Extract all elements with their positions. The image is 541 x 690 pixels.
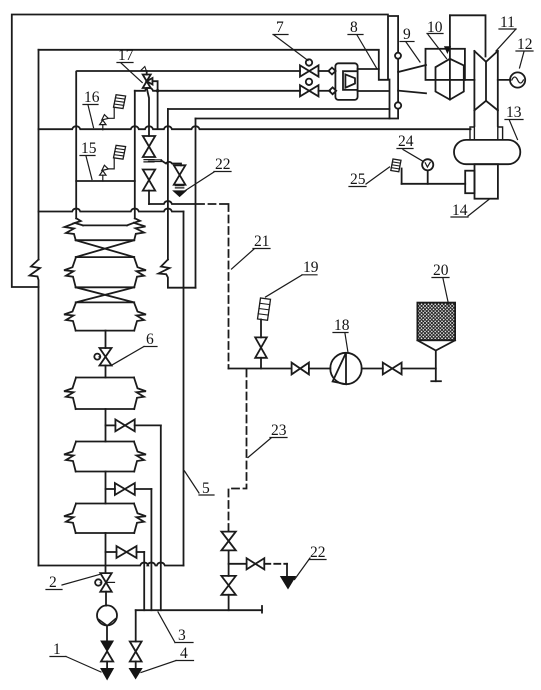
svg-text:4: 4	[180, 645, 188, 662]
valve (lower of pair below 17)	[143, 170, 155, 191]
valve 2 with actuator	[100, 573, 111, 592]
valve 7 lower with actuator	[306, 79, 312, 85]
flange under drain valve	[175, 186, 183, 188]
coil 25 (hatched element)	[391, 159, 401, 172]
wire side branch of valve 17 to line L2	[153, 81, 158, 128]
node channel circle lower	[395, 102, 401, 108]
wire vertical of L3 with break mark, to corner at y=287.7	[167, 109, 169, 260]
svg-text:17: 17	[118, 47, 134, 64]
wire box8 outlets	[358, 68, 379, 70]
pump (feed pump)	[97, 605, 117, 625]
gauge 24	[422, 159, 433, 170]
wire shaft lines	[465, 79, 510, 81]
wire X cross rows 1-2	[76, 240, 135, 257]
valve 17 (three-way impulse valve)	[146, 71, 148, 75]
wire valve6 to row 4	[105, 366, 107, 378]
valve C on line 23	[221, 576, 235, 595]
wire box 5 top edge	[39, 209, 184, 212]
wire centerline row6 down	[105, 533, 107, 573]
svg-text:20: 20	[433, 262, 449, 279]
valve on extraction 2	[106, 488, 115, 490]
valve 4	[130, 642, 142, 662]
svg-text:24: 24	[398, 133, 414, 150]
wire condensate line y=368.5	[229, 368, 292, 370]
svg-text:8: 8	[350, 19, 358, 36]
node channel circle upper	[395, 53, 401, 59]
wire box 5 right edge	[183, 212, 185, 566]
svg-text:21: 21	[254, 233, 270, 250]
wire third border / line L1 to valve 7 upper	[76, 71, 300, 219]
coil 19 (hatched element)	[258, 298, 271, 320]
wire bottom manifold	[136, 609, 262, 611]
wire valve 4 branch	[135, 610, 137, 641]
wire centerline row5-row6	[105, 472, 107, 504]
drain outlet 22 (filled triangle)	[173, 191, 185, 197]
drain outlet under valve 4 (filled triangle)	[129, 669, 141, 679]
wire line L3	[168, 108, 390, 110]
valve B to drain 22	[247, 558, 265, 569]
svg-text:22: 22	[215, 156, 231, 173]
heat exchanger surface row 4	[76, 377, 134, 379]
wire long drain header y=129 to condenser	[39, 126, 471, 129]
valve on extraction 3	[106, 551, 117, 553]
svg-text:6: 6	[146, 331, 154, 348]
wire right edge of 15/16 box x=134.8 / line L2 feed	[134, 91, 136, 219]
wire left main vertical (box 5 left edge) with break mark	[38, 50, 40, 260]
wire dashed line 21 vertical	[228, 204, 230, 369]
svg-text:15: 15	[81, 140, 97, 157]
wire X cross rows 2-3	[76, 287, 135, 302]
condenser 13 (stadium)	[454, 140, 520, 164]
generator 12	[510, 72, 525, 87]
flange between valves	[144, 160, 154, 162]
heat exchanger surface row 1	[83, 224, 127, 226]
box 14 (hotwell)	[475, 164, 498, 199]
wire extraction 2 drop	[150, 489, 152, 610]
node flow arrow into turbine 10	[445, 47, 451, 53]
heat exchanger surface row 6	[76, 503, 134, 505]
wire turbine inlet channel	[388, 16, 398, 119]
node flange diamond	[328, 68, 335, 75]
wire stem below valve 17	[147, 88, 149, 136]
wire extraction 1 drop	[160, 425, 162, 610]
node flange diamond lower	[329, 87, 336, 94]
wire dashed line 21 horizontal start	[197, 203, 229, 205]
valve 6 with actuator	[100, 348, 112, 366]
wire box 5 bottom edge	[39, 563, 184, 566]
wire valve2 to pump	[105, 592, 107, 606]
wire branch to drain valve 22	[149, 160, 162, 162]
node junction on L2	[156, 89, 159, 92]
heat exchanger surface row 3	[76, 301, 134, 303]
impulse valve 15	[100, 171, 106, 176]
wire tee to drain valve 22 lower	[229, 563, 247, 565]
valve left of pump 18	[292, 363, 309, 375]
heat exchanger surface row 5	[76, 441, 134, 443]
drain outlet 22 lower (filled triangle)	[281, 577, 296, 589]
valve on drain branch	[174, 165, 186, 184]
turbine 11 (LP)	[474, 51, 497, 110]
nozzle 9 (expanding cone)	[398, 65, 426, 93]
wire second loop border	[39, 50, 389, 80]
svg-text:7: 7	[276, 19, 284, 36]
svg-text:25: 25	[350, 171, 366, 188]
pump 18	[330, 353, 361, 384]
node manifold end tick	[261, 606, 263, 613]
wire extraction 3 drop	[143, 552, 145, 610]
turbine 10 casing	[426, 49, 465, 80]
wire crossover pipe	[450, 15, 486, 56]
wire exhaust neck	[474, 110, 497, 126]
heat exchanger surface row 2	[76, 256, 134, 258]
wire centerline row4-row5	[105, 409, 107, 442]
coil 15 (hatched sensor element)	[114, 145, 126, 159]
attachment box on 14	[465, 171, 474, 194]
wire line L4	[196, 118, 390, 120]
valve 1 (half filled)	[101, 641, 113, 651]
svg-text:18: 18	[334, 317, 350, 334]
wire pump line junction to dashed 23 drop	[229, 370, 247, 531]
drain outlet under valve 1 (filled triangle)	[101, 669, 113, 680]
svg-text:22: 22	[310, 544, 326, 561]
valve 7 upper with actuator	[306, 59, 312, 65]
wire centerline row3 to valve 6	[105, 331, 107, 348]
svg-text:16: 16	[84, 89, 100, 106]
valve under item 19	[260, 358, 262, 369]
wire outer loop border (steam line from boiler to stop valves)	[12, 15, 388, 288]
svg-text:19: 19	[303, 259, 319, 276]
svg-text:3: 3	[178, 627, 186, 644]
stop valve block 8	[335, 63, 357, 100]
svg-text:2: 2	[49, 574, 57, 591]
valve (upper of pair below 17)	[143, 136, 155, 157]
valve right of pump 18	[383, 363, 402, 375]
svg-text:13: 13	[506, 104, 522, 121]
impulse valve 16	[100, 120, 106, 125]
svg-text:1: 1	[53, 641, 61, 658]
svg-text:9: 9	[403, 26, 411, 43]
wire line under item 15	[76, 180, 135, 182]
wire line L2 to valve 7 lower	[135, 88, 300, 91]
wire short header y=204 from drain valves	[149, 201, 196, 204]
neck flares	[470, 126, 474, 140]
svg-text:23: 23	[271, 422, 287, 439]
tank 20 with crosshatch	[417, 303, 455, 341]
coil 16 (hatched sensor element)	[114, 95, 126, 109]
wire gauge line to hotwell	[402, 183, 466, 185]
valve on extraction 1	[106, 424, 116, 426]
wire tank downcomer	[435, 351, 437, 382]
valve A on line 23	[221, 532, 235, 551]
